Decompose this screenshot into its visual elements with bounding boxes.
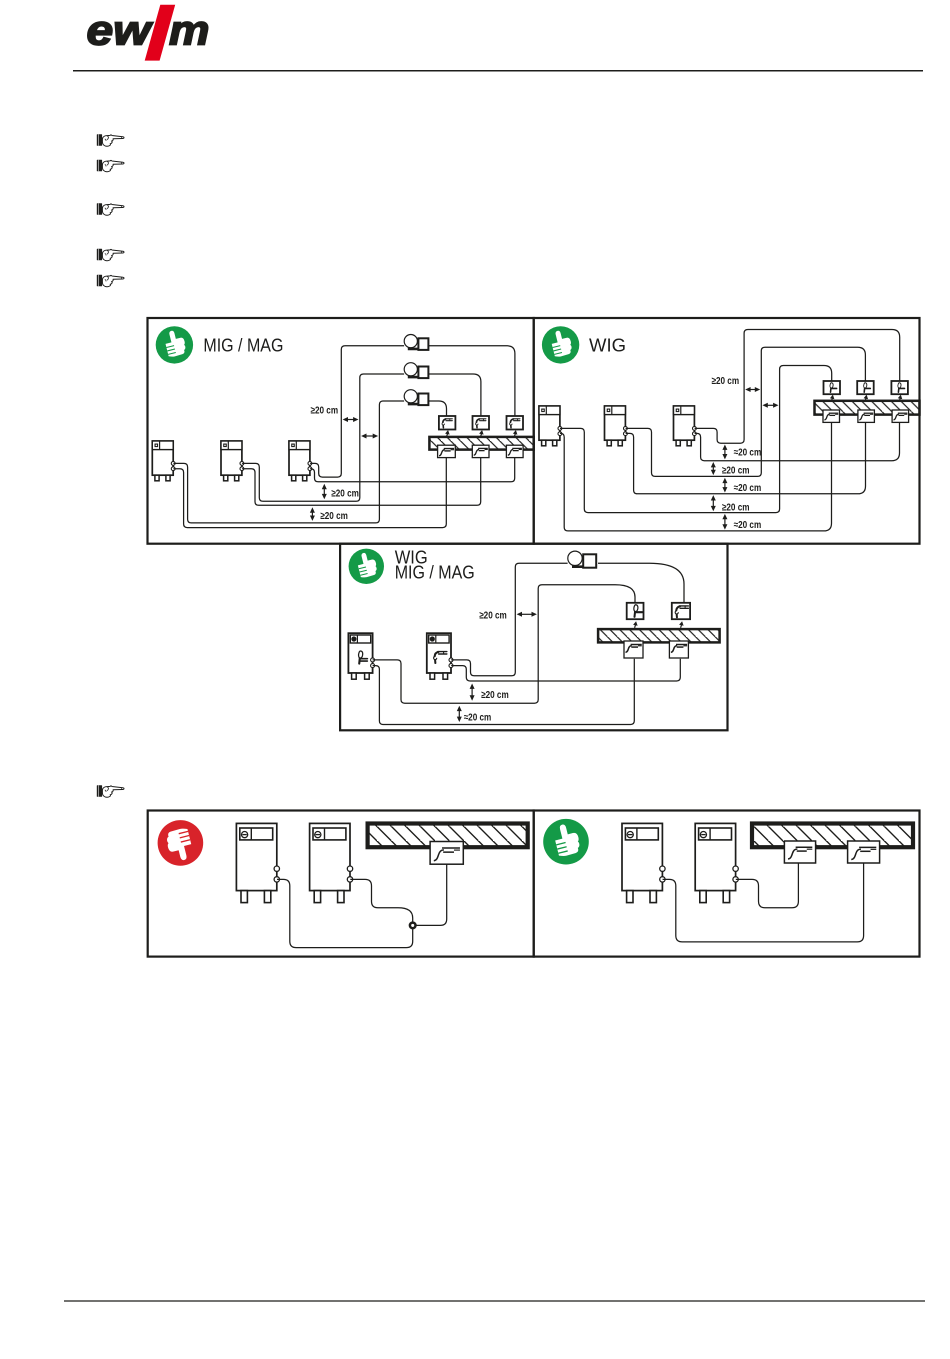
workpiece-lead PS8 to mig clamp bbox=[451, 659, 680, 681]
thumbs-down symbol bbox=[158, 820, 204, 866]
power source PS1 bbox=[152, 441, 175, 481]
welding-lead PS3 to feeder F1 bbox=[310, 346, 404, 477]
workpiece-lead PS2 to clamp C2 bbox=[242, 458, 481, 506]
header rule bbox=[73, 70, 923, 72]
welding-lead PS2 to feeder F2 bbox=[242, 374, 404, 501]
dimension ≥20cm torch leads bbox=[712, 376, 761, 392]
dimension ≥20cm leads box3 bbox=[470, 684, 509, 701]
workpiece-lead PS1 to clamp C1 bbox=[173, 458, 446, 528]
power source PS4 bbox=[539, 406, 562, 446]
welding-lead PS7 to tig torch bbox=[373, 585, 635, 703]
power source PS6 bbox=[674, 406, 697, 446]
workpiece-lead PS11 to clamp C8 bbox=[663, 863, 864, 942]
thumbs-up symbol bbox=[542, 326, 579, 363]
work clamp C5 bbox=[669, 641, 688, 658]
workpiece-lead PS3 to clamp C3 bbox=[310, 458, 515, 482]
work clamp C1 bbox=[438, 445, 456, 457]
power source PS12 bbox=[695, 823, 738, 902]
dimension ≥20cm row2 bbox=[711, 462, 750, 477]
wire feeder F2 bbox=[404, 363, 428, 378]
note hand symbol 4 bbox=[97, 249, 124, 261]
frame box WIG bbox=[534, 318, 920, 544]
welding-lead PS1 to feeder F3 bbox=[173, 401, 404, 523]
dimension ≥20cm leads D bbox=[310, 507, 348, 522]
dimension ≈20cm row3 bbox=[722, 478, 761, 494]
note hand symbol 3 bbox=[97, 203, 124, 215]
work clamp C2 bbox=[472, 445, 489, 457]
welding-lead PS4 to torch TA bbox=[560, 366, 832, 513]
workpiece bar box3 bbox=[598, 629, 720, 642]
wire feeder F4 bbox=[568, 551, 596, 568]
svg-text:MIG / MAG: MIG / MAG bbox=[203, 336, 283, 356]
workpiece bar box4 bbox=[368, 824, 528, 848]
mig torch T5 bbox=[672, 603, 690, 619]
workpiece-lead PS10 to junction bbox=[350, 879, 412, 925]
dimension arrow B bbox=[361, 434, 378, 439]
welding-lead PS5 to torch TB bbox=[626, 347, 866, 476]
dimension ≈20cm row1 bbox=[722, 445, 761, 460]
svg-text:m: m bbox=[169, 7, 210, 54]
svg-text:≈20 cm: ≈20 cm bbox=[464, 712, 492, 723]
work clamp CC bbox=[892, 410, 909, 422]
workpiece bar box2 bbox=[815, 401, 920, 415]
svg-text:≥20 cm: ≥20 cm bbox=[479, 611, 507, 622]
dimension ≈20cm row5 bbox=[722, 514, 761, 531]
hose F1 to torch T3 bbox=[428, 346, 515, 416]
power source PS9 bbox=[236, 823, 279, 902]
frame box wrong earthing bbox=[148, 811, 534, 957]
thumbs-up symbol bbox=[543, 819, 589, 865]
mig torch T2 bbox=[473, 416, 490, 430]
arc arrow T5 bbox=[679, 621, 684, 628]
svg-text:ew: ew bbox=[87, 7, 154, 54]
wire feeder F1 bbox=[404, 335, 428, 350]
work clamp C7 bbox=[784, 841, 815, 863]
workpiece bar box1 bbox=[429, 437, 533, 450]
dimension ≥20cm row4 bbox=[711, 495, 750, 513]
note hand symbol 1 bbox=[97, 134, 124, 146]
feeder to mig torch bbox=[598, 563, 684, 602]
arc arrow TA bbox=[830, 395, 835, 402]
svg-text:≈20 cm: ≈20 cm bbox=[734, 520, 762, 531]
workpiece-lead PS12 to clamp C7 bbox=[736, 863, 799, 908]
svg-text:≈20 cm: ≈20 cm bbox=[734, 447, 762, 458]
thumbs-up symbol bbox=[156, 326, 193, 363]
work clamp C4 bbox=[624, 641, 643, 658]
workpiece-lead PS6 to clamp CC bbox=[695, 423, 900, 461]
workpiece-lead PS7 to tig clamp bbox=[373, 659, 635, 725]
workpiece-lead PS4 to clamp CA bbox=[560, 423, 832, 531]
svg-text:≈20 cm: ≈20 cm bbox=[734, 483, 762, 494]
arc arrow T3 bbox=[513, 430, 518, 437]
tig torch TB bbox=[857, 381, 874, 394]
svg-text:≥20 cm: ≥20 cm bbox=[311, 406, 339, 417]
svg-text:MIG / MAG: MIG / MAG bbox=[395, 563, 475, 583]
frame box WIG MIG/MAG bbox=[340, 544, 727, 731]
frame box MIG/MAG bbox=[148, 318, 534, 544]
power source PS3 bbox=[289, 441, 312, 481]
workpiece bar box5 bbox=[752, 824, 913, 848]
footer rule bbox=[64, 1300, 925, 1302]
work clamp C3 bbox=[506, 445, 523, 457]
power source PS11 bbox=[622, 823, 665, 902]
note hand symbol 2 bbox=[97, 160, 124, 172]
dimension ≥20cm feeder leads A bbox=[311, 406, 359, 423]
welding-lead PS6 to torch TC bbox=[695, 330, 900, 444]
svg-text:≥20 cm: ≥20 cm bbox=[331, 489, 359, 500]
work clamp C8 bbox=[848, 841, 880, 863]
tig torch TC bbox=[891, 381, 908, 394]
power source PS7 bbox=[348, 633, 374, 679]
dimension ≥20cm torch spacing bbox=[479, 611, 537, 622]
arc arrow T1 bbox=[445, 430, 450, 437]
wire feeder F3 bbox=[404, 390, 428, 405]
work clamp C6 bbox=[430, 842, 463, 865]
power source PS2 bbox=[221, 441, 244, 481]
svg-text:≥20 cm: ≥20 cm bbox=[481, 690, 509, 701]
ewm logo red slash bbox=[145, 5, 176, 61]
mig torch T3 bbox=[507, 416, 524, 430]
arc arrow T2 bbox=[479, 430, 484, 437]
svg-text:WIG: WIG bbox=[589, 336, 626, 356]
power source PS10 bbox=[310, 823, 353, 902]
workpiece-lead PS9 to junction bbox=[277, 879, 413, 947]
svg-text:≥20 cm: ≥20 cm bbox=[722, 502, 750, 513]
note hand symbol 5 bbox=[97, 275, 124, 287]
svg-text:≥20 cm: ≥20 cm bbox=[320, 511, 348, 522]
welding-lead PS8 to feeder bbox=[451, 563, 567, 676]
hose F3 to torch T1 bbox=[428, 401, 446, 416]
mig torch T1 bbox=[439, 416, 456, 430]
arc arrow T4 bbox=[633, 621, 638, 628]
svg-text:≥20 cm: ≥20 cm bbox=[722, 466, 750, 477]
power source PS8 bbox=[427, 633, 453, 679]
workpiece-lead PS5 to clamp CB bbox=[626, 423, 866, 494]
clamp lead to junction bbox=[413, 864, 447, 925]
svg-text:≥20 cm: ≥20 cm bbox=[712, 376, 740, 387]
dimension ≈20cm leads box3 bbox=[457, 706, 492, 724]
arc arrow TB bbox=[864, 395, 869, 402]
dimension ≥20cm leads C bbox=[322, 484, 359, 500]
thumbs-up symbol bbox=[349, 549, 384, 584]
work clamp CB bbox=[858, 410, 875, 422]
tig torch TA bbox=[824, 381, 841, 394]
power source PS5 bbox=[605, 406, 628, 446]
dimension arrow torch leads 2 bbox=[762, 403, 778, 408]
ewm logo text bbox=[87, 7, 210, 54]
tig torch T4 bbox=[627, 603, 644, 619]
work clamp CA bbox=[823, 410, 840, 422]
arc arrow TC bbox=[898, 395, 903, 402]
junction node bbox=[410, 923, 416, 929]
frame box correct earthing bbox=[534, 811, 920, 957]
hose F2 to torch T2 bbox=[428, 374, 481, 416]
note hand symbol 6 bbox=[97, 785, 124, 797]
